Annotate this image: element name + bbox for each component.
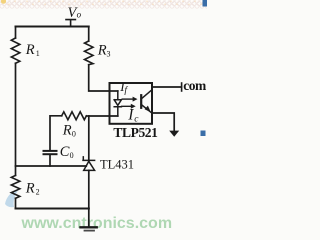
svg-text:1: 1 bbox=[36, 49, 40, 58]
top rail wire bbox=[16, 26, 89, 28]
yellow dot top-left bbox=[1, 0, 6, 4]
node Vo terminal bbox=[66, 20, 75, 27]
svg-text:C: C bbox=[60, 144, 70, 160]
wire R3 bottom lead bbox=[89, 65, 110, 91]
emitter arrowhead bbox=[145, 106, 151, 113]
svg-text:R: R bbox=[62, 122, 72, 138]
light arrow 2 bbox=[121, 106, 132, 107]
optocoupler U1 box bbox=[110, 83, 153, 124]
light arrow 1 bbox=[122, 98, 134, 99]
wire LED anode entry bbox=[110, 90, 118, 92]
svg-text:3: 3 bbox=[107, 49, 111, 58]
blue square right edge bbox=[201, 131, 206, 137]
wire left rail middle bbox=[15, 63, 17, 175]
wire R3 top lead bbox=[88, 27, 90, 42]
resistor R0 bbox=[62, 112, 87, 120]
svg-text:www.cntronics.com: www.cntronics.com bbox=[21, 215, 173, 232]
svg-text:R: R bbox=[97, 42, 107, 58]
phototransistor Q1 base bar bbox=[140, 95, 142, 108]
ground G1 bbox=[81, 226, 97, 228]
capacitor C0 bbox=[44, 150, 57, 152]
wire divider tap to TL431 ref bbox=[16, 165, 87, 167]
svg-text:com: com bbox=[183, 78, 207, 93]
svg-text:o: o bbox=[77, 9, 82, 19]
wire emitter to ground bbox=[152, 113, 174, 131]
wire collector to com bbox=[152, 86, 181, 88]
ground arrow right bbox=[169, 131, 179, 137]
com terminal tick bbox=[181, 83, 183, 91]
wire TL431 anode lead bbox=[88, 170, 90, 208]
LED D1 bbox=[114, 91, 121, 116]
resistor R1 bbox=[11, 38, 19, 63]
blue square top-right bbox=[203, 0, 208, 7]
phototransistor emitter bbox=[141, 105, 151, 113]
svg-text:TL431: TL431 bbox=[100, 157, 134, 171]
phototransistor collector bbox=[141, 90, 151, 99]
svg-text:R: R bbox=[25, 181, 35, 197]
svg-text:0: 0 bbox=[70, 151, 74, 160]
wire to ground bbox=[88, 209, 90, 227]
wire C0 bottom lead bbox=[49, 155, 51, 166]
wire TL431 cathode lead bbox=[88, 116, 90, 160]
wire R0 right lead bbox=[86, 115, 88, 117]
watermark blue swoosh near R2 bbox=[5, 189, 19, 207]
svg-text:TLP521: TLP521 bbox=[113, 125, 158, 140]
wire left rail lower bbox=[15, 198, 17, 208]
wire LED cathode out bbox=[89, 115, 118, 117]
wire bottom rail bbox=[16, 208, 89, 210]
svg-text:2: 2 bbox=[36, 188, 40, 197]
svg-text:0: 0 bbox=[72, 129, 76, 138]
wire left rail upper bbox=[15, 27, 17, 39]
resistor R3 bbox=[85, 41, 94, 65]
TL431 D2 bbox=[83, 157, 95, 171]
decorative top strip bbox=[0, 0, 209, 8]
resistor R2 bbox=[11, 175, 19, 198]
wire R0 left lead bbox=[50, 116, 62, 150]
svg-text:R: R bbox=[25, 42, 35, 58]
